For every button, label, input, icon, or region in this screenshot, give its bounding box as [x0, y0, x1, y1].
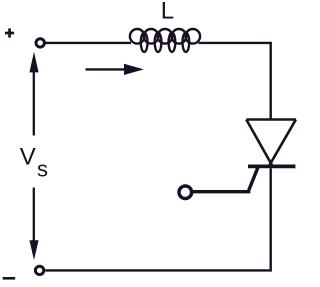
gate lead (diagonal + horizontal)	[193, 168, 258, 192]
wire: thyristor cathode down to bottom-right corner, along bottom	[45, 168, 271, 270]
current direction arrow	[86, 64, 144, 75]
inductor L coil	[130, 29, 200, 52]
node: negative terminal circle	[35, 266, 43, 274]
thyristor anode triangle	[246, 120, 296, 167]
thyristor cathode bar	[248, 164, 295, 168]
svg-text:L: L	[161, 0, 174, 25]
wire: inductor to top-right corner and down to thyristor	[199, 43, 271, 120]
svg-text:s: s	[37, 156, 48, 181]
wire top: terminal to inductor	[45, 42, 131, 44]
Vs up arrow	[29, 52, 38, 136]
plus terminal label +	[5, 28, 14, 37]
Vs down arrow	[29, 188, 38, 261]
svg-text:V: V	[20, 144, 36, 171]
gate terminal circle	[179, 186, 192, 199]
node: positive terminal circle	[36, 39, 44, 47]
minus terminal label	[3, 277, 16, 280]
